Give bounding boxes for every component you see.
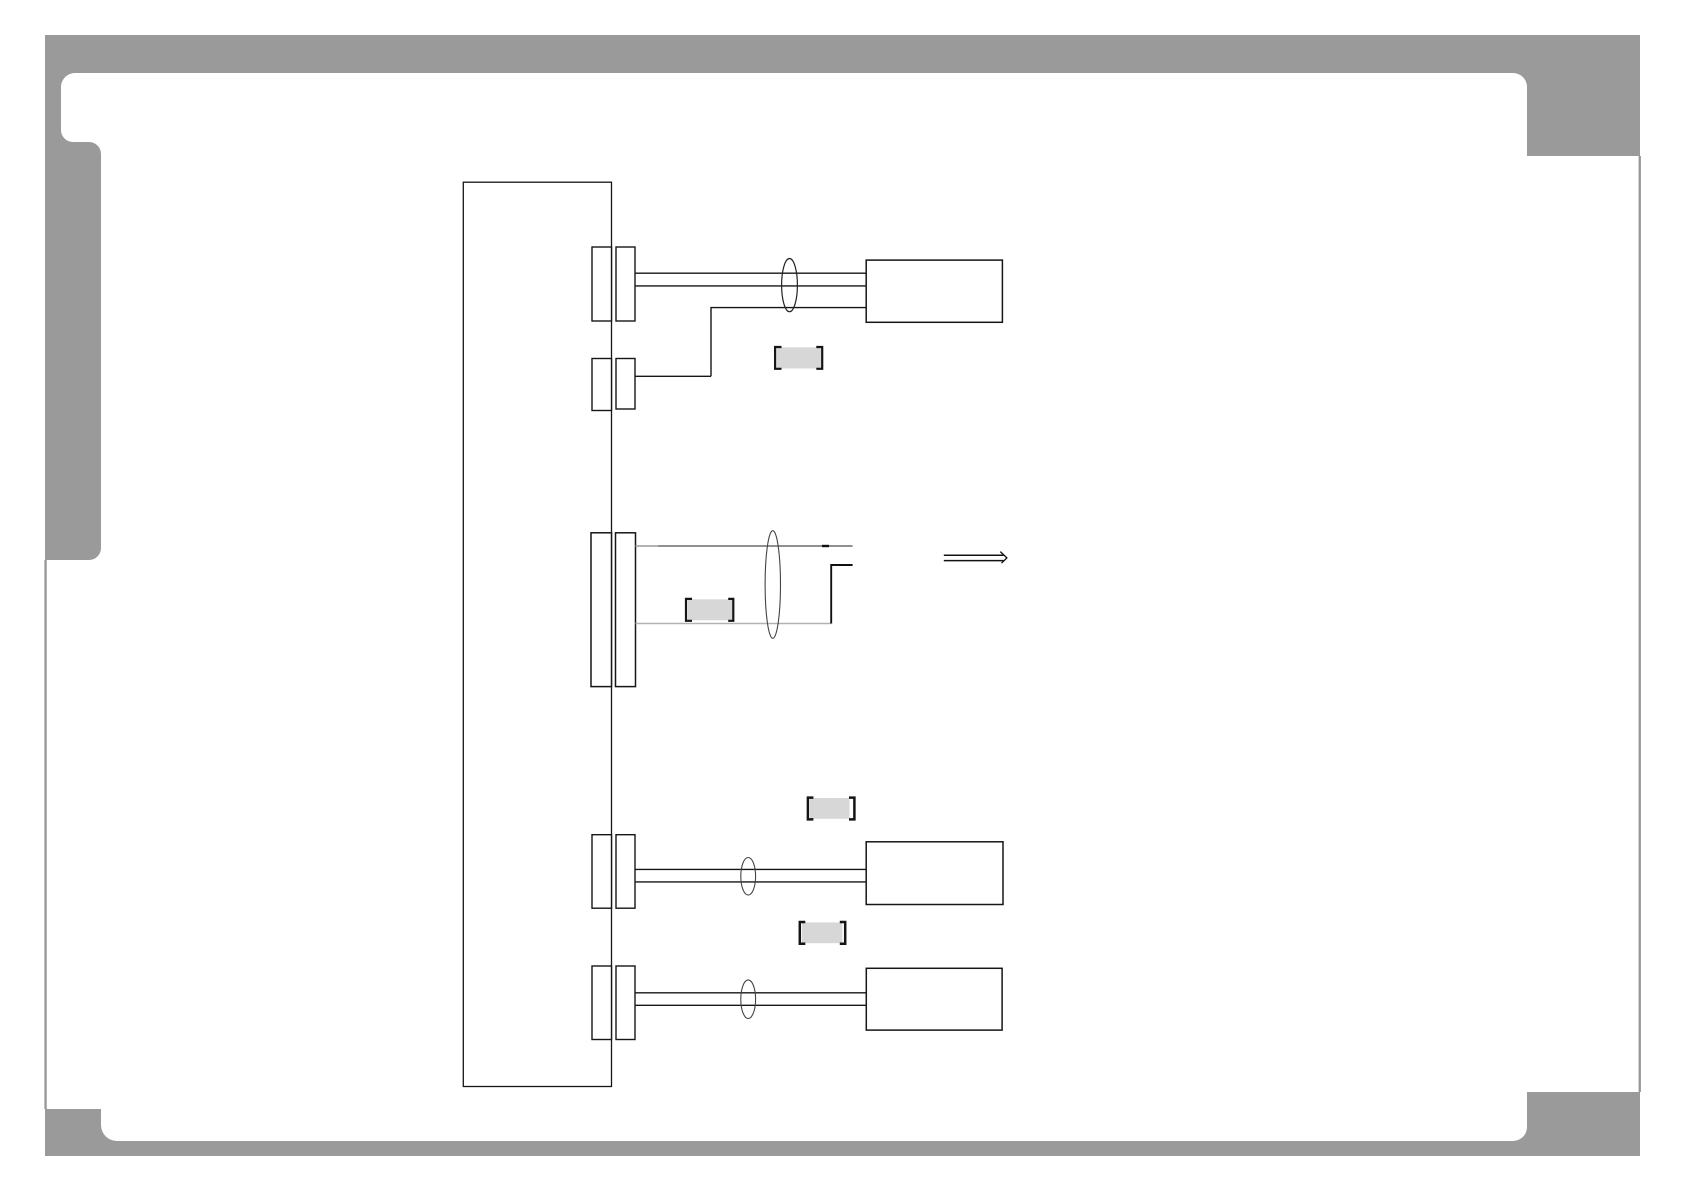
- connector CN5 inner half: [592, 966, 612, 1040]
- page frame gray bottom assembly: [45, 1092, 1640, 1156]
- wire CN4 upper: [635, 868, 866, 870]
- main board outline: [463, 182, 611, 1086]
- label box 1: [775, 347, 822, 369]
- device box 1: [866, 260, 1002, 322]
- device box 3: [866, 968, 1002, 1030]
- connector CN4 outer half: [616, 835, 635, 909]
- ferrite core L2: [765, 531, 780, 639]
- ferrite core L3: [741, 858, 756, 896]
- label box 2: [686, 599, 733, 621]
- wire CN5 upper: [635, 992, 866, 994]
- wire CN4 lower: [635, 881, 866, 883]
- connector CN4 inner half: [592, 835, 612, 909]
- connector CN2 outer half: [616, 359, 635, 410]
- device box 2: [866, 842, 1003, 905]
- wire CN3 upper light stub: [636, 545, 659, 547]
- signal arrow: [944, 552, 1007, 564]
- connector CN3 outer half: [616, 533, 636, 687]
- page frame right thin rule: [1639, 156, 1641, 1092]
- wire CN5 lower: [635, 1004, 866, 1006]
- connector CN2 inner half: [592, 359, 612, 411]
- label box 3: [808, 798, 855, 820]
- wire CN3 upper: [636, 545, 853, 547]
- connector CN3 inner half: [591, 533, 612, 687]
- connector CN1 inner half: [592, 247, 612, 321]
- wire return from device box 1: [711, 308, 866, 377]
- wire CN2: [635, 375, 711, 377]
- connector CN5 outer half: [616, 966, 635, 1040]
- wire CN1 upper: [635, 272, 866, 274]
- ferrite core L1: [782, 259, 798, 312]
- page frame left thin rule: [44, 560, 46, 1109]
- wire CN3 lower: [636, 623, 832, 625]
- wire nub on CN3 upper: [822, 545, 829, 547]
- connector CN1 outer half: [616, 247, 635, 321]
- wire CN1 lower: [635, 285, 866, 287]
- label box 4: [800, 922, 845, 944]
- page frame gray top assembly: [45, 35, 1640, 560]
- ferrite core L4: [741, 980, 756, 1019]
- wire CN3 right step: [831, 565, 852, 624]
